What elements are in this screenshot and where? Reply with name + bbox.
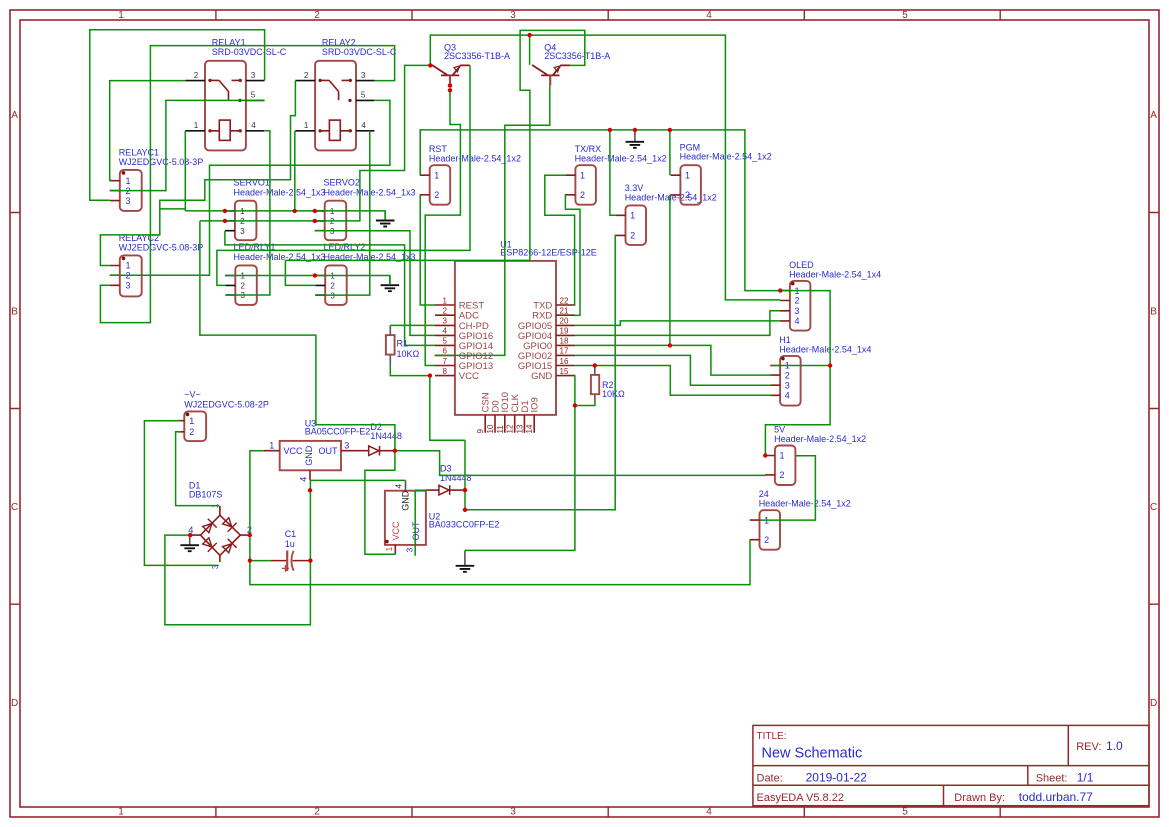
relay coil: [329, 120, 340, 140]
relay switch contacts and arm: [210, 80, 240, 100]
connector ~V~ body: [184, 411, 206, 441]
wire bus line2 (Q4 emitter / Q3 base / LED-RLY2.2): [285, 259, 530, 261]
header PGM body: [680, 165, 701, 205]
svg-text:New Schematic: New Schematic: [762, 746, 863, 762]
svg-text:Header-Male-2.54_1x2: Header-Male-2.54_1x2: [759, 499, 851, 509]
wire D2 node to 5V.2: [395, 451, 765, 476]
wire LED/RLY pin1 bus to ground G2: [225, 276, 390, 285]
transistor Q4 base stem: [549, 75, 551, 85]
svg-text:2: 2: [189, 427, 194, 437]
wire C1 left lead: [250, 560, 271, 562]
svg-text:2: 2: [314, 807, 320, 818]
junction dots: [428, 63, 432, 67]
svg-text:EasyEDA V5.8.22: EasyEDA V5.8.22: [757, 792, 844, 804]
svg-text:1N4448: 1N4448: [370, 431, 402, 441]
svg-text:3: 3: [240, 227, 245, 236]
transistor Q3 symbol: [432, 65, 470, 75]
svg-text:2: 2: [785, 370, 790, 380]
svg-text:4: 4: [443, 327, 448, 336]
relay coil: [219, 120, 230, 140]
svg-text:R1: R1: [397, 339, 409, 349]
svg-text:8: 8: [443, 367, 448, 376]
svg-text:Date:: Date:: [757, 772, 783, 784]
svg-text:1: 1: [126, 176, 131, 186]
header LED/RLY1 pin stubs (black): [225, 276, 235, 296]
header SERVO1 body: [235, 201, 257, 241]
diode D3 anode lead: [427, 489, 439, 491]
connector RELAYC1 pin stubs: [110, 181, 120, 201]
wire PGM.1 drop: [669, 130, 671, 175]
ground G1 right of SERVO2: [384, 211, 386, 221]
svg-text:3: 3: [344, 441, 349, 451]
wire ground bus D1.4 - C1 right - U3 GND: [165, 480, 311, 625]
header 5V pin stubs: [765, 456, 775, 475]
svg-text:1.0: 1.0: [1106, 739, 1123, 753]
wire ~V~.1 to D1.3: [144, 421, 218, 566]
svg-text:11: 11: [496, 425, 505, 434]
wire U3 GND line to U2 GND: [310, 479, 406, 481]
svg-text:4: 4: [785, 391, 790, 401]
svg-text:2: 2: [443, 307, 448, 316]
svg-text:2: 2: [330, 282, 335, 291]
svg-text:1: 1: [580, 170, 585, 180]
svg-text:13: 13: [515, 424, 524, 433]
wire D3 anode link over U2: [415, 489, 426, 491]
svg-text:5: 5: [902, 807, 908, 818]
diode D2 cathode lead: [380, 450, 395, 452]
svg-text:B: B: [11, 307, 18, 318]
regulator U2 pin1 stub: [394, 545, 396, 554]
svg-text:1/1: 1/1: [1077, 770, 1094, 784]
wire SERVO1 pin1 bus to ground G1: [185, 211, 385, 220]
wire SERVO1.3 to U1 GPIO14: [225, 231, 435, 346]
wire line2 drop to LED/RLY2.2: [285, 260, 315, 285]
svg-text:3: 3: [795, 306, 800, 316]
wire U2 OUT vertical: [414, 490, 416, 556]
header H1 pin stubs: [770, 366, 780, 396]
svg-text:3: 3: [361, 71, 366, 80]
svg-text:3: 3: [785, 380, 790, 390]
svg-text:19: 19: [560, 327, 569, 336]
wire TX/RX.1 to U1 TXD: [545, 175, 575, 305]
wire net RELAYC2.1 - RELAY1.1 riser: [100, 209, 185, 266]
header OLED pin1 marker dot: [791, 282, 795, 286]
regulator U3 body: [280, 441, 341, 470]
svg-text:18: 18: [560, 337, 569, 346]
header RST pin stubs: [420, 175, 430, 195]
transistor Q3 emitter arrow: [454, 66, 460, 72]
header TX/RX body: [575, 165, 596, 205]
svg-text:BA033CC0FP-E2: BA033CC0FP-E2: [429, 520, 500, 530]
resistor R2 body: [591, 375, 599, 394]
wire RELAY2.5 to RELAYC2.2: [110, 100, 390, 275]
header SERVO1 pin stubs (black): [225, 211, 235, 231]
svg-text:2SC3356-T1B-A: 2SC3356-T1B-A: [544, 51, 610, 61]
wire H1.1 link to riser: [770, 365, 830, 367]
resistor R1 stubs: [389, 325, 391, 365]
svg-text:3: 3: [510, 10, 516, 21]
svg-text:B: B: [1150, 307, 1157, 318]
wire RELAY2.1 riser: [294, 131, 296, 211]
svg-text:1: 1: [630, 211, 635, 221]
svg-text:GND: GND: [304, 445, 314, 466]
wire U1 GND down to ground G5: [465, 376, 575, 551]
svg-text:GND: GND: [531, 371, 552, 382]
relay RELAY1 body: [205, 61, 246, 151]
svg-text:D3: D3: [440, 463, 452, 473]
svg-text:~V~: ~V~: [184, 390, 201, 400]
svg-text:SRD-03VDC-SL-C: SRD-03VDC-SL-C: [212, 47, 287, 57]
diode D3 symbol: [439, 485, 450, 495]
svg-text:C: C: [11, 502, 18, 513]
svg-text:16: 16: [560, 357, 569, 366]
relay RELAY2 body: [315, 61, 356, 151]
svg-text:22: 22: [560, 296, 569, 305]
wire U1 GPIO04 to OLED.3: [575, 311, 780, 336]
svg-text:5: 5: [902, 10, 908, 21]
wire 3.3V.1 drop: [610, 130, 616, 215]
connector RELAYC1 body: [120, 170, 142, 211]
svg-text:BA05CC0FP-E2: BA05CC0FP-E2: [305, 427, 371, 437]
svg-text:10KΩ: 10KΩ: [397, 349, 420, 359]
wire R2 bottom to GND riser: [575, 403, 595, 406]
svg-text:5: 5: [443, 337, 448, 346]
svg-text:Header-Male-2.54_1x3: Header-Male-2.54_1x3: [234, 187, 326, 197]
header OLED body: [790, 281, 811, 331]
svg-text:OUT: OUT: [319, 446, 339, 456]
bridge rectifier D1 pin stubs: [190, 506, 250, 562]
header 3.3V pin stubs: [616, 215, 626, 235]
header 24 body: [760, 510, 781, 550]
bridge rectifier D1 inner diodes: [201, 519, 216, 534]
wire RST.2 to U1 REST: [420, 195, 435, 305]
ground G5 below U1 GND: [464, 550, 466, 565]
wire Q3 emitter to LED/RLY1.2: [217, 65, 470, 285]
ground G3 top near 3.3V: [634, 130, 636, 142]
connector RELAYC2 pin stubs: [110, 266, 120, 286]
header H1 body: [780, 356, 801, 406]
svg-text:7: 7: [443, 357, 448, 366]
svg-text:GND: GND: [400, 490, 410, 511]
diode D2 symbol: [369, 446, 380, 456]
svg-text:20: 20: [560, 317, 569, 326]
svg-text:3: 3: [126, 281, 131, 291]
header OLED pin stubs: [780, 291, 790, 321]
header TX/RX pin stubs: [566, 175, 576, 195]
header 3.3V body: [626, 205, 647, 245]
svg-text:4: 4: [299, 477, 309, 482]
chip U1 bottom pin stubs: [485, 415, 534, 433]
svg-text:10KΩ: 10KΩ: [602, 389, 625, 399]
wire U1 GPIO02 to H1.3: [575, 355, 771, 385]
svg-text:2: 2: [580, 190, 585, 200]
svg-text:4: 4: [394, 484, 404, 489]
wire Q4 base to U1 GPIO12: [435, 86, 550, 356]
header H1 pin1 marker dot: [781, 357, 785, 361]
svg-text:1: 1: [269, 441, 274, 451]
svg-text:1: 1: [194, 121, 199, 130]
svg-text:2: 2: [685, 190, 690, 200]
svg-text:WJ2EDGVC-5.08-2P: WJ2EDGVC-5.08-2P: [184, 400, 269, 410]
wire PGM.2 to GPIO0 junction: [669, 195, 671, 346]
svg-text:VCC: VCC: [391, 521, 401, 541]
ground G2 right of LED/RLY2: [389, 276, 391, 286]
svg-text:1: 1: [685, 170, 690, 180]
wire Q4 emitter loop to line2: [520, 30, 585, 260]
wire net RELAY1.5 - RELAYC1.2: [110, 100, 265, 190]
wire SERVO1.2 riser down to D2 cathode node: [200, 221, 395, 451]
wire RELAY2.4 to LED/RLY2.3: [315, 131, 370, 295]
svg-text:12: 12: [506, 424, 515, 433]
wire ~V~.2 to D1.1: [176, 432, 220, 506]
svg-text:21: 21: [560, 307, 569, 316]
svg-text:2: 2: [764, 535, 769, 545]
svg-text:SRD-03VDC-SL-C: SRD-03VDC-SL-C: [322, 47, 397, 57]
svg-text:1: 1: [126, 261, 131, 271]
connector RELAYC2 body: [120, 255, 142, 296]
svg-text:4: 4: [706, 807, 712, 818]
svg-text:Header-Male-2.54_1x2: Header-Male-2.54_1x2: [429, 154, 521, 164]
connector RELAYC1 pin1 marker dot: [122, 171, 126, 175]
svg-text:4: 4: [706, 10, 712, 21]
svg-text:3: 3: [251, 71, 256, 80]
svg-text:1: 1: [384, 547, 394, 552]
svg-text:A: A: [11, 110, 18, 121]
svg-text:Drawn By:: Drawn By:: [954, 792, 1005, 804]
capacitor C1 leads: [271, 560, 311, 562]
connector ~V~ pin stubs: [178, 421, 184, 432]
svg-text:2: 2: [314, 10, 320, 21]
wire RELAY1.4 to LED/RLY1.3: [226, 131, 270, 295]
svg-text:3: 3: [443, 317, 448, 326]
svg-text:Header-Male-2.54_1x4: Header-Male-2.54_1x4: [779, 344, 871, 354]
regulator U2 body: [385, 491, 426, 545]
svg-text:Header-Male-2.54_1x2: Header-Male-2.54_1x2: [774, 434, 866, 444]
svg-text:REV:: REV:: [1076, 741, 1101, 753]
wire U1 GPIO05 to OLED.4: [575, 321, 780, 326]
resistor R1 body: [386, 335, 395, 355]
svg-text:4: 4: [795, 316, 800, 326]
svg-text:Header-Male-2.54_1x2: Header-Male-2.54_1x2: [575, 154, 667, 164]
chip U1 right pin stubs: [556, 305, 575, 376]
header 24 pin stubs: [750, 520, 760, 540]
svg-text:WJ2EDGVC-5.08-3P: WJ2EDGVC-5.08-3P: [119, 157, 204, 167]
svg-text:A: A: [1150, 110, 1157, 121]
svg-text:1N4448: 1N4448: [440, 473, 472, 483]
wire net RELAY2.3 - RELAYC2.3: [100, 46, 394, 323]
svg-text:2019-01-22: 2019-01-22: [806, 770, 868, 784]
header 5V body: [775, 446, 796, 486]
regulator U3 pin stubs: [264, 451, 369, 481]
wire SERVO pin2 bus to Q3 collector: [200, 65, 430, 221]
svg-text:3: 3: [510, 807, 516, 818]
wire 5V.2 stub link: [764, 474, 766, 477]
wire collector bus to OLED.2: [430, 35, 780, 300]
header RST body: [430, 165, 451, 205]
wire U2 GND stub: [405, 480, 407, 490]
svg-text:IO9: IO9: [530, 397, 541, 412]
svg-text:Sheet:: Sheet:: [1036, 772, 1068, 784]
svg-text:D: D: [1150, 698, 1157, 709]
header SERVO2 pin stubs (black): [315, 211, 325, 231]
wire net RELAY1.3 - RELAYC1.3 (top-left loop): [90, 30, 265, 201]
svg-text:5: 5: [251, 91, 256, 100]
svg-text:14: 14: [525, 424, 534, 433]
svg-text:C1: C1: [285, 529, 297, 539]
connector RELAYC2 pin1 marker dot: [122, 257, 126, 261]
svg-text:WJ2EDGVC-5.08-3P: WJ2EDGVC-5.08-3P: [119, 243, 204, 253]
svg-text:todd.urban.77: todd.urban.77: [1019, 790, 1093, 804]
svg-text:Header-Male-2.54_1x4: Header-Male-2.54_1x4: [789, 269, 881, 279]
svg-text:1: 1: [780, 451, 785, 461]
wire RELAY1.1 riser to SERVO1 pin1 bus: [184, 131, 186, 211]
chip U1 left pin stubs: [435, 305, 455, 376]
svg-text:2: 2: [304, 71, 309, 80]
ground G4 at D1 pin4: [189, 535, 191, 545]
svg-text:ESP8266-12E/ESP-12E: ESP8266-12E/ESP-12E: [500, 248, 597, 258]
diode D3 cathode lead: [450, 489, 465, 491]
svg-text:10: 10: [486, 424, 495, 433]
wire Q3 base to U1 GPIO13: [425, 90, 460, 365]
header PGM pin stubs: [671, 175, 681, 195]
svg-text:SERVO2: SERVO2: [324, 178, 360, 188]
relay pin stubs (black): [295, 81, 374, 131]
header SERVO2 body: [325, 201, 347, 241]
wire RELAY2.2 detour to SERVO1 pin1 bus: [160, 81, 296, 209]
wire R1 bottom to U1 VCC: [390, 365, 430, 376]
wire R1 top to U1 CH-PD: [390, 324, 435, 326]
capacitor C1 plates: [286, 551, 288, 572]
svg-text:1u: 1u: [285, 539, 295, 549]
svg-text:2: 2: [780, 470, 785, 480]
svg-text:2: 2: [194, 71, 199, 80]
svg-text:2SC3356-T1B-A: 2SC3356-T1B-A: [444, 51, 510, 61]
svg-text:1: 1: [434, 170, 439, 180]
wire SERVO2.3 to U1 GPIO16: [315, 231, 435, 336]
header LED/RLY2 body: [325, 265, 347, 305]
transistor Q3 base stem: [449, 75, 451, 83]
svg-text:1: 1: [118, 10, 124, 21]
svg-text:Header-Male-2.54_1x2: Header-Male-2.54_1x2: [625, 192, 717, 202]
svg-text:2: 2: [241, 282, 246, 291]
svg-text:3: 3: [405, 548, 415, 553]
svg-text:1: 1: [189, 416, 194, 426]
svg-text:2: 2: [630, 231, 635, 241]
capacitor C1 plus sign: [282, 565, 289, 572]
bridge rectifier D1 diamond: [201, 515, 241, 555]
resistor R2 stubs: [594, 366, 596, 403]
svg-text:4: 4: [251, 121, 256, 130]
svg-text:DB107S: DB107S: [189, 490, 223, 500]
svg-text:1: 1: [118, 807, 124, 818]
wire 3.3V.2 down to D3 node line: [465, 235, 616, 509]
wire TX/RX.2 to U1 RXD: [565, 195, 580, 316]
svg-text:9: 9: [476, 429, 485, 434]
svg-text:6: 6: [443, 347, 448, 356]
wire D3 cathode vertical: [464, 440, 466, 510]
svg-text:D: D: [11, 698, 18, 709]
wire D2 node down to U2 VCC: [365, 451, 395, 555]
svg-text:RELAYC1: RELAYC1: [119, 148, 159, 158]
wire U1 VCC to D3 link: [430, 376, 465, 441]
svg-text:1: 1: [443, 296, 448, 305]
svg-text:2: 2: [795, 296, 800, 306]
transistor Q4 emitter arrow: [554, 66, 560, 72]
header LED/RLY2 pin stubs (black): [315, 276, 325, 296]
svg-text:17: 17: [560, 347, 569, 356]
svg-text:5: 5: [361, 91, 366, 100]
connector ~V~ pin1 marker dot: [186, 413, 190, 417]
svg-text:C: C: [1150, 502, 1157, 513]
wire U1 GPIO15 to H1.4 with R2 tap: [575, 366, 771, 396]
wire U1 GPIO0 to H1.2: [575, 345, 771, 375]
chip U1 body: [455, 261, 556, 415]
regulator U2 pin1 marker dot: [385, 540, 389, 544]
transistor Q4 symbol: [532, 65, 570, 75]
svg-text:3: 3: [126, 196, 131, 206]
header LED/RLY1 body: [235, 265, 256, 305]
svg-text:4: 4: [361, 121, 366, 130]
svg-text:VCC: VCC: [459, 371, 479, 382]
wire net RELAY1.2 - RELAYC1.1: [110, 81, 186, 181]
title block outline: [753, 725, 1149, 805]
svg-text:TITLE:: TITLE:: [757, 731, 787, 742]
svg-text:2: 2: [434, 190, 439, 200]
relay pin stubs (black): [185, 81, 264, 131]
wire 24.2 to bottom bus to U3.1 / D1.2: [250, 451, 750, 585]
svg-text:15: 15: [560, 367, 569, 376]
wire Q4 collector drop: [529, 35, 531, 65]
wire RST.1 riser / top bus to OLED.1 / H1 / 5V.1: [420, 130, 830, 456]
svg-text:1: 1: [304, 121, 309, 130]
wire 5V.1 to 24.1: [760, 456, 816, 520]
relay switch contacts and arm: [320, 80, 350, 100]
svg-text:VCC: VCC: [284, 446, 304, 456]
